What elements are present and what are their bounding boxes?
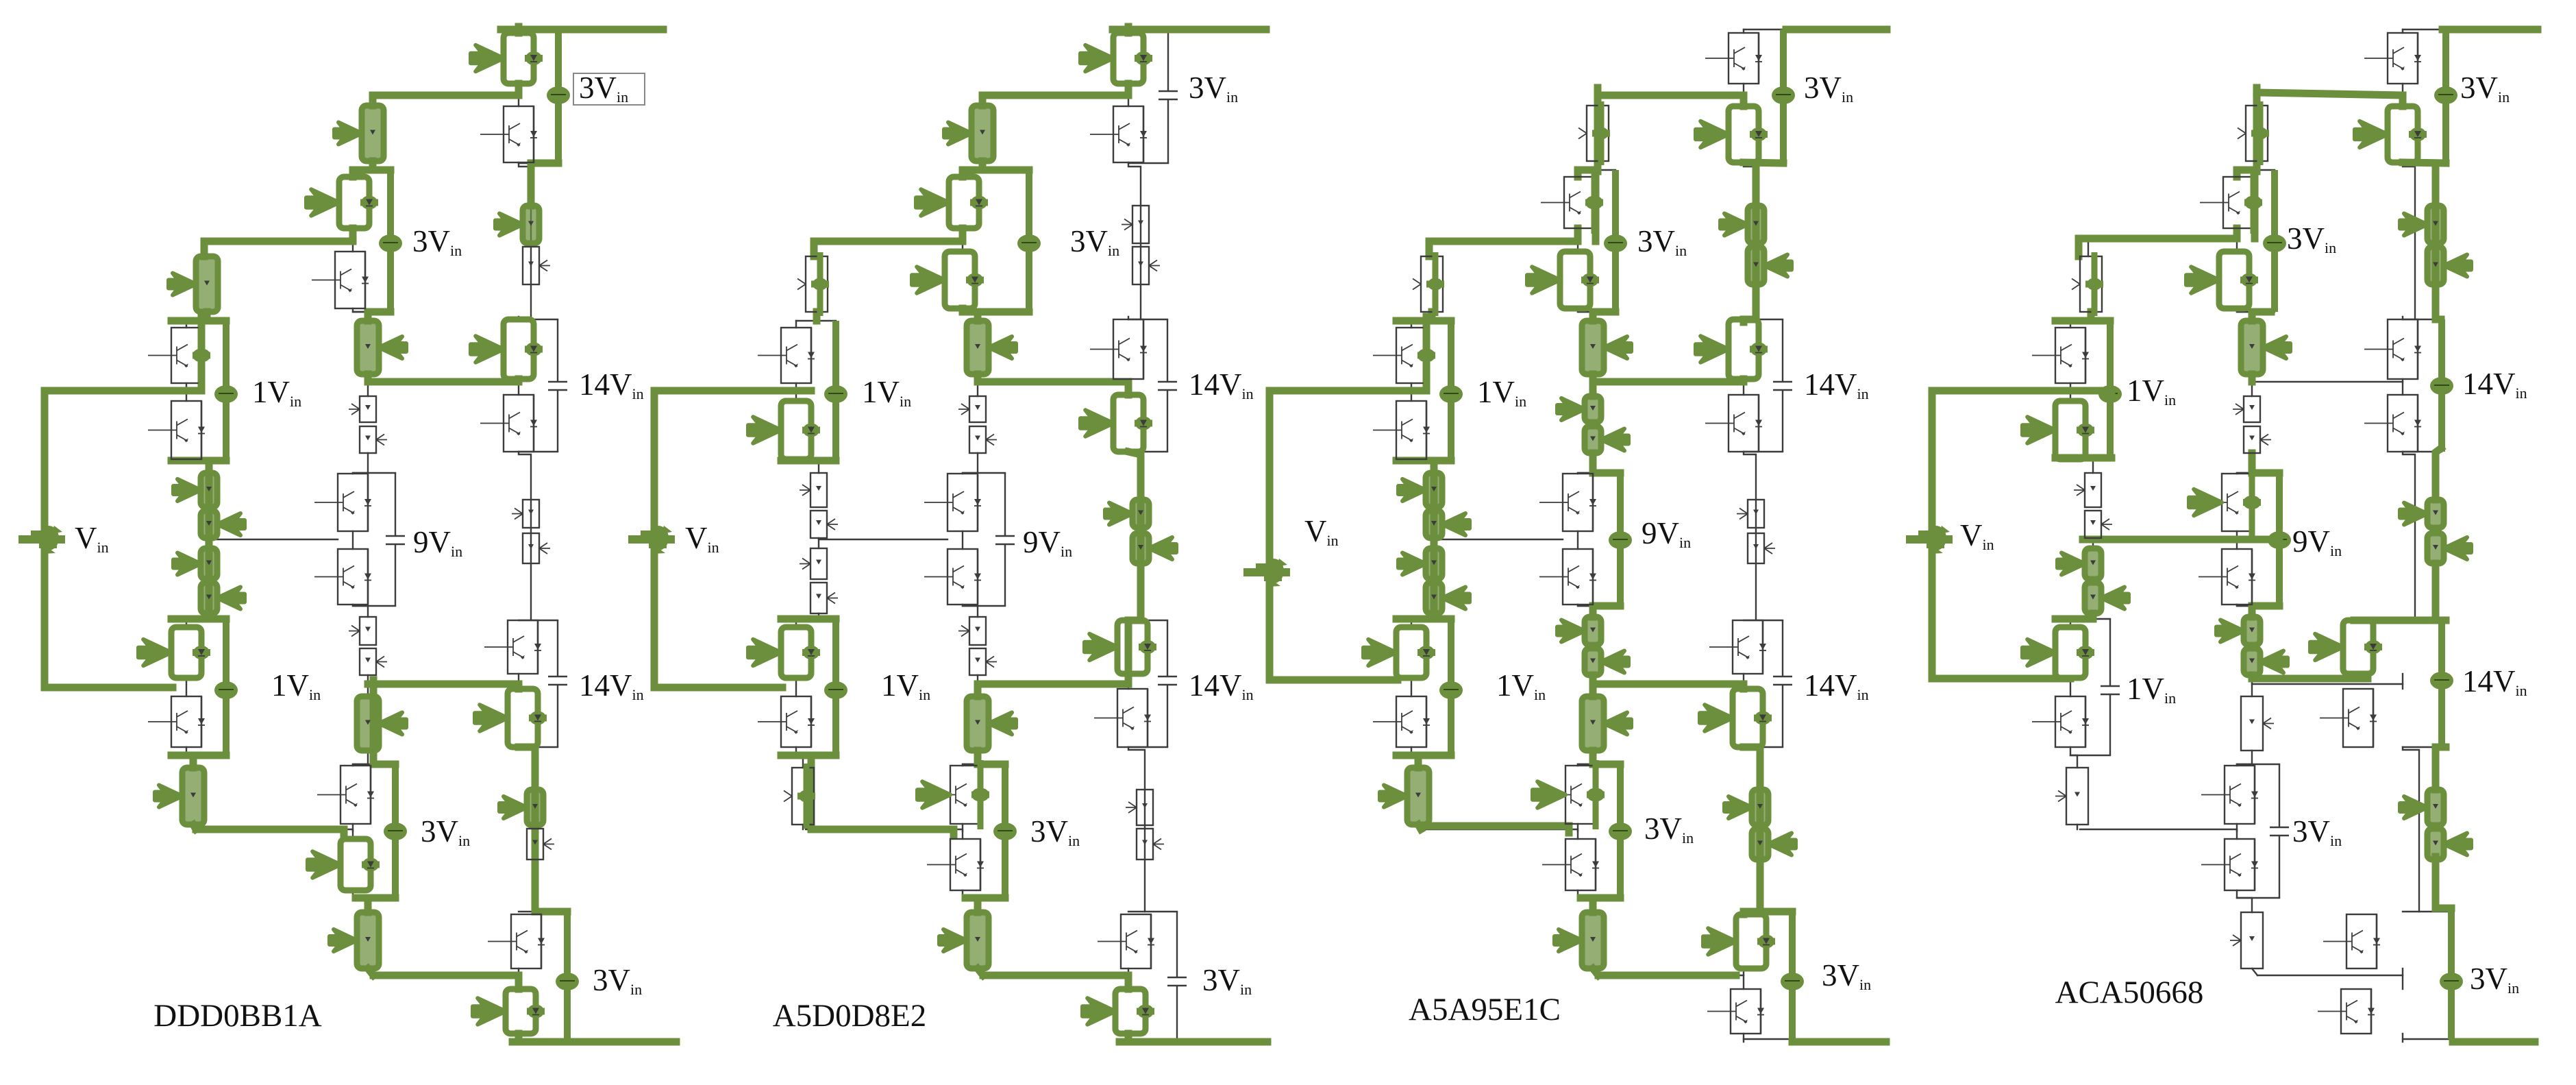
wire green A5A95E1C seg46 — [1418, 825, 1421, 829]
wire black DDD0BB1A sk16 — [519, 911, 567, 912]
wire black A5A95E1C sk40 — [1431, 312, 1433, 321]
switch RC31 A5A95E1C — [1724, 790, 1768, 825]
wire green A5D0D8E2 seg15 — [978, 378, 1128, 386]
wire green DDD0BB1A seg11 — [171, 317, 226, 325]
wire green ACA50668 seg30 — [1932, 387, 2111, 395]
transistor M1b DDD0BB1A — [312, 252, 369, 308]
transistor M3b A5A95E1C — [1542, 839, 1599, 890]
switch LJK1 A5D0D8E2 — [800, 548, 827, 579]
wire black DDD0BB1A sk41 — [186, 321, 187, 328]
wire black DDD0BB1A sk44 — [208, 538, 210, 548]
wire black ACA50668 sk44 — [2092, 538, 2094, 548]
wire green A5D0D8E2 seg29 — [781, 457, 836, 465]
wire black A5A95E1C sk21 — [1577, 228, 1578, 252]
wire black A5D0D8E2 sk58 — [806, 829, 963, 831]
transistor 9Vb A5A95E1C — [1539, 549, 1596, 605]
wire green A5A95E1C seg7 — [1593, 378, 1744, 386]
wire green A5D0D8E2 seg28 — [654, 387, 785, 395]
wire green A5A95E1C seg34 — [1421, 826, 1569, 833]
transistor M1b A5D0D8E2 — [912, 252, 984, 308]
transistor R1b A5A95E1C — [1696, 106, 1768, 162]
wire black ACA50668 sk54 — [2088, 239, 2237, 241]
wire black ACA50668 sk10 — [2403, 29, 2442, 30]
wire black ACA50668 sk49 — [2070, 320, 2110, 321]
wire black A5D0D8E2 sk6 — [1128, 379, 1129, 395]
wire black A5D0D8E2 sk49 — [796, 320, 836, 321]
wire black ACA50668 sk46 — [2070, 678, 2071, 696]
switch RC21 A5D0D8E2 — [1105, 500, 1149, 528]
switch LHI1 A5A95E1C — [1398, 473, 1442, 507]
wire black ACA50668 sk1 — [2403, 452, 2415, 619]
wire black A5A95E1C sk16 — [1744, 911, 1792, 912]
wire black A5A95E1C sk43 — [1411, 459, 1434, 473]
wire green DDD0BB1A seg32 — [370, 680, 377, 764]
wire green DDD0BB1A seg24 — [368, 378, 519, 386]
switch MG1 A5D0D8E2 — [939, 912, 989, 968]
wire green A5A95E1C seg35 — [1581, 894, 1620, 902]
transistor Lut A5D0D8E2 — [758, 328, 815, 383]
wire green ACA50668 seg14 — [2233, 170, 2241, 177]
capacitor cap9V DDD0BB1A — [386, 473, 405, 606]
switch MBC2 DDD0BB1A — [360, 426, 387, 453]
wire black A5A95E1C sk36 — [1578, 605, 1620, 607]
switch RC32 ACA50668 — [2427, 829, 2471, 860]
wire black DDD0BB1A sk50 — [186, 460, 226, 461]
switch RC22 A5A95E1C — [1748, 533, 1775, 563]
wire black DDD0BB1A sk20 — [352, 170, 354, 177]
wire black DDD0BB1A sk13 — [519, 451, 558, 452]
switch MDE2 A5D0D8E2 — [969, 648, 997, 675]
transistor 9Vt A5D0D8E2 — [924, 474, 981, 531]
wire green DDD0BB1A seg5 — [353, 167, 391, 174]
wire black DDD0BB1A sk36 — [353, 605, 395, 607]
switch RC32 DDD0BB1A — [527, 829, 554, 860]
wire black A5D0D8E2 sk27 — [963, 605, 978, 617]
wire green DDD0BB1A seg8 — [204, 238, 353, 245]
wire green A5A95E1C seg20 — [1574, 228, 1582, 241]
wire black A5D0D8E2 sk5 — [1128, 317, 1129, 319]
label LLl ACA50668 — [2127, 672, 2176, 707]
wire black ACA50668 sk16 — [2403, 911, 2451, 912]
wire black A5D0D8E2 sk48 — [802, 825, 804, 829]
wire black A5A95E1C sk11 — [1744, 162, 1783, 164]
transistor R4b A5A95E1C — [1707, 989, 1764, 1034]
switch LJK2 ACA50668 — [2085, 583, 2129, 613]
switch RC21 A5A95E1C — [1737, 500, 1764, 528]
label LR4 A5D0D8E2 — [1202, 963, 1252, 998]
wire green A5D0D8E2 seg27 — [781, 752, 836, 759]
wire black ACA50668 sk9 — [2402, 1034, 2403, 1042]
transistor M3b ACA50668 — [2201, 839, 2258, 890]
wire black A5D0D8E2 sk18 — [982, 95, 983, 106]
capacitor capR1 DDD0BB1A — [547, 29, 570, 163]
wire black A5A95E1C sk2 — [1744, 747, 1760, 912]
wire black A5D0D8E2 sk26 — [962, 531, 963, 549]
wire black A5A95E1C sk26 — [1577, 531, 1578, 549]
switch LL1 DDD0BB1A — [155, 768, 204, 825]
wire black DDD0BB1A sk45 — [186, 613, 209, 627]
wire green A5A95E1C seg25 — [1589, 374, 1597, 396]
transistor R3t ACA50668 — [2310, 620, 2382, 674]
switch LC01 A5A95E1C — [1413, 252, 1444, 316]
wire green A5A95E1C seg13 — [1740, 912, 1748, 914]
transistor Lut ACA50668 — [2032, 328, 2089, 383]
wire black A5A95E1C sk17 — [1744, 1038, 1792, 1040]
capacitor capM1 DDD0BB1A — [379, 170, 402, 312]
wire green A5A95E1C seg16 — [1578, 167, 1598, 174]
wire green A5A95E1C seg10 — [1744, 747, 1760, 912]
wire green A5D0D8E2 seg6 — [959, 170, 967, 177]
wire black DDD0BB1A sk30 — [352, 824, 354, 839]
wire green A5A95E1C seg18 — [1592, 170, 1600, 241]
transistor Llb A5D0D8E2 — [758, 696, 815, 747]
wire green ACA50668 seg17 — [2233, 228, 2241, 239]
wire black ACA50668 sk50 — [2070, 460, 2110, 461]
wire green DDD0BB1A seg13 — [45, 387, 201, 395]
wire green A5A95E1C seg29 — [1593, 602, 1620, 610]
wire green A5D0D8E2 seg4 — [963, 161, 982, 170]
wire black ACA50668 sk3 — [2402, 29, 2403, 33]
wire green A5A95E1C seg27 — [1593, 470, 1620, 477]
wire top bus A5D0D8E2 — [1113, 26, 1266, 34]
wire black DDD0BB1A sk47 — [186, 747, 193, 768]
transistor R2b A5D0D8E2 — [1080, 395, 1152, 452]
wire black DDD0BB1A sk1 — [519, 452, 531, 619]
transistor M3t DDD0BB1A — [317, 766, 374, 824]
wire green ACA50668 seg6 — [2432, 563, 2440, 620]
transistor R3b A5D0D8E2 — [1094, 689, 1151, 747]
capacitor capLl ACA50668 — [2101, 619, 2120, 755]
wire black DDD0BB1A sk35 — [353, 472, 395, 474]
wire green A5D0D8E2 seg0 — [1125, 27, 1132, 33]
label L9V A5D0D8E2 — [1023, 525, 1072, 560]
wire green A5D0D8E2 seg10 — [813, 312, 821, 321]
wire green A5A95E1C seg24 — [1589, 312, 1597, 321]
label LM3 A5D0D8E2 — [1030, 814, 1080, 849]
wire green A5D0D8E2 seg25 — [811, 829, 954, 835]
wire black A5A95E1C sk0 — [1744, 162, 1756, 319]
wire black A5D0D8E2 sk8 — [1128, 968, 1129, 989]
wire green DDD0BB1A seg3 — [369, 95, 377, 106]
wire green A5D0D8E2 seg33 — [978, 968, 983, 975]
label L14b A5D0D8E2 — [1189, 668, 1254, 703]
switch RC21 ACA50668 — [2400, 500, 2444, 528]
wire black A5A95E1C sk14 — [1744, 620, 1783, 621]
wire black A5D0D8E2 sk51 — [796, 618, 836, 620]
switch MDE2 ACA50668 — [2244, 648, 2288, 675]
transistor R4b ACA50668 — [2318, 989, 2375, 1034]
switch RC11 ACA50668 — [2400, 206, 2444, 243]
wire green DDD0BB1A seg16 — [171, 615, 226, 623]
wire green DDD0BB1A seg19 — [193, 825, 196, 829]
transistor R1b DDD0BB1A — [480, 106, 537, 162]
wire black A5D0D8E2 sk35 — [963, 472, 1005, 474]
wire green A5A95E1C seg42 — [1431, 461, 1438, 619]
transistor R2b ACA50668 — [2364, 395, 2421, 452]
switch LJK1 A5A95E1C — [1398, 548, 1442, 579]
wire green DDD0BB1A seg12 — [198, 317, 206, 391]
wire green DDD0BB1A seg35 — [364, 898, 372, 912]
wire green A5A95E1C seg1 — [1598, 92, 1744, 99]
wire bottom bus ACA50668 — [2453, 1038, 2535, 1046]
switch MA1 DDD0BB1A — [357, 321, 406, 374]
wire black A5A95E1C sk51 — [1411, 618, 1451, 620]
wire black ACA50668 sk0 — [2403, 162, 2415, 319]
wire black DDD0BB1A sk43 — [186, 459, 209, 473]
capacitor capLl A5D0D8E2 — [824, 619, 847, 755]
wire black A5D0D8E2 sk55 — [978, 381, 1128, 382]
switch MBC1 A5D0D8E2 — [958, 396, 986, 422]
transistor Lut A5A95E1C — [1373, 322, 1435, 389]
label LLl A5A95E1C — [1496, 668, 1546, 703]
switch RC22 DDD0BB1A — [523, 533, 550, 563]
wire black ACA50668 sk29 — [2237, 751, 2252, 766]
wire green ACA50668 seg16 — [2079, 235, 2237, 243]
label LM3 A5A95E1C — [1644, 812, 1694, 846]
wire green ACA50668 seg31 — [2055, 454, 2111, 462]
transistor Llt DDD0BB1A — [138, 627, 210, 678]
wire green ACA50668 seg8 — [2252, 675, 2368, 683]
wire black ACA50668 sk35 — [2237, 472, 2279, 474]
transistor R3b DDD0BB1A — [475, 689, 547, 747]
wire black A5A95E1C sk34 — [1578, 311, 1615, 313]
wire green ACA50668 seg25 — [2252, 602, 2279, 610]
transistor R2b DDD0BB1A — [480, 395, 537, 452]
wire black DDD0BB1A sk27 — [353, 605, 368, 617]
label LR1 A5A95E1C — [1804, 71, 1853, 106]
wire green A5D0D8E2 seg32 — [965, 894, 1005, 902]
wire green DDD0BB1A seg39 — [515, 1034, 523, 1042]
wire black A5D0D8E2 sk42 — [795, 383, 797, 401]
wire black A5A95E1C sk24 — [1592, 382, 1594, 396]
wire black A5A95E1C sk9 — [1743, 1034, 1744, 1042]
source Vin A5D0D8E2 — [651, 391, 658, 687]
wire black DDD0BB1A sk22 — [353, 308, 368, 321]
wire green A5A95E1C seg37 — [1593, 968, 1598, 975]
wire black DDD0BB1A sk3 — [518, 29, 519, 33]
wire green ACA50668 seg9 — [2436, 747, 2446, 790]
wire black ACA50668 sk28 — [2251, 675, 2253, 696]
wire green ACA50668 seg5 — [2436, 448, 2441, 500]
capacitor capM3 ACA50668 — [2270, 764, 2289, 898]
wire green A5D0D8E2 seg12 — [963, 308, 1029, 316]
switch RC32 A5D0D8E2 — [1137, 829, 1164, 860]
wire green DDD0BB1A seg15 — [206, 461, 213, 619]
wire black A5D0D8E2 sk9 — [1128, 1034, 1129, 1042]
wire black DDD0BB1A sk6 — [518, 379, 519, 395]
wire black A5A95E1C sk45 — [1411, 613, 1434, 627]
wire black A5D0D8E2 sk2 — [1128, 747, 1145, 912]
wire green A5D0D8E2 seg17 — [1128, 452, 1141, 620]
wire black A5A95E1C sk8 — [1743, 968, 1744, 989]
wire black DDD0BB1A sk11 — [519, 162, 558, 164]
label L14b ACA50668 — [2462, 664, 2527, 699]
wire black DDD0BB1A sk48 — [193, 825, 194, 829]
label LLl DDD0BB1A — [271, 668, 321, 703]
wire black ACA50668 sk8 — [2402, 968, 2403, 989]
transistor R2t DDD0BB1A — [471, 319, 543, 379]
wire black A5D0D8E2 sk21 — [962, 228, 963, 252]
wire black ACA50668 sk31 — [2237, 890, 2252, 912]
wire green ACA50668 seg2 — [2403, 162, 2446, 163]
wire black A5D0D8E2 sk36 — [963, 605, 1005, 607]
wire black A5D0D8E2 sk11 — [1128, 162, 1168, 164]
label L14a DDD0BB1A — [579, 367, 644, 402]
switch MC01 A5D0D8E2 — [944, 106, 993, 161]
wire green A5A95E1C seg30 — [1589, 675, 1597, 696]
source Vin DDD0BB1A — [41, 391, 49, 687]
wire green A5A95E1C seg5 — [1740, 319, 1748, 322]
wire black ACA50668 sk25 — [2237, 453, 2252, 474]
wire black A5A95E1C sk3 — [1743, 29, 1744, 33]
wire green ACA50668 seg11 — [2436, 905, 2451, 912]
wire black ACA50668 sk45 — [2070, 613, 2093, 627]
wire green A5D0D8E2 seg8 — [814, 238, 963, 245]
wire black DDD0BB1A sk34 — [353, 311, 391, 313]
wire green ACA50668 seg20 — [2252, 308, 2271, 316]
wire black A5D0D8E2 sk47 — [796, 747, 803, 768]
switch MBC1 ACA50668 — [2233, 396, 2260, 422]
wire green A5D0D8E2 seg5 — [963, 167, 1029, 174]
wire black DDD0BB1A sk56 — [209, 539, 338, 540]
wire black ACA50668 sk5 — [2402, 317, 2403, 319]
wire black A5A95E1C sk49 — [1411, 320, 1451, 321]
capacitor capR3 ACA50668 — [2430, 620, 2453, 747]
label Vin DDD0BB1A — [75, 521, 109, 556]
transistor R4b DDD0BB1A — [473, 989, 545, 1034]
switch MC01 A5A95E1C — [1578, 101, 1610, 165]
wire black A5D0D8E2 sk24 — [977, 382, 978, 396]
wire black DDD0BB1A sk46 — [186, 678, 187, 696]
wire black A5A95E1C sk30 — [1577, 824, 1578, 839]
switch LC01 ACA50668 — [2072, 252, 2103, 316]
wire green DDD0BB1A seg37 — [373, 972, 511, 979]
wire black A5D0D8E2 sk54 — [814, 239, 963, 241]
wire green DDD0BB1A seg10 — [203, 312, 211, 321]
wire black A5D0D8E2 sk32 — [978, 968, 983, 975]
wire green ACA50668 seg24 — [2249, 606, 2256, 617]
wire black ACA50668 sk30 — [2236, 824, 2238, 839]
wire black ACA50668 sk55 — [2252, 381, 2403, 382]
wire black DDD0BB1A sk31 — [353, 890, 368, 912]
transistor 9Vt ACA50668 — [2189, 468, 2261, 537]
transistor R4t ACA50668 — [2323, 914, 2380, 968]
capacitor capM3 DDD0BB1A — [384, 764, 407, 898]
switch LHI2 A5A95E1C — [1426, 511, 1470, 538]
wire black ACA50668 sk24 — [2251, 382, 2253, 396]
wire green A5A95E1C seg4 — [1744, 316, 1756, 324]
switch MG1 A5A95E1C — [1555, 912, 1604, 968]
capacitor capR3 A5D0D8E2 — [1158, 620, 1177, 747]
switch RC12 ACA50668 — [2427, 247, 2471, 284]
wire green A5A95E1C seg19 — [1429, 238, 1578, 245]
wire black ACA50668 sk4 — [2402, 84, 2403, 106]
capacitor capR4 ACA50668 — [2440, 912, 2463, 1039]
transistor Llt A5A95E1C — [1363, 627, 1435, 678]
wire black A5A95E1C sk37 — [1578, 764, 1620, 765]
wire black DDD0BB1A sk7 — [518, 674, 519, 689]
transistor 9Vb ACA50668 — [2199, 549, 2255, 605]
wire black DDD0BB1A sk29 — [353, 751, 368, 766]
switch MC01 ACA50668 — [2238, 101, 2269, 165]
label L9V DDD0BB1A — [413, 525, 462, 560]
wire black ACA50668 sk53 — [2257, 95, 2403, 96]
capacitor capR1 ACA50668 — [2434, 29, 2457, 163]
wire black A5D0D8E2 sk10 — [1128, 29, 1168, 30]
transistor R1t A5A95E1C — [1705, 33, 1762, 84]
wire green A5D0D8E2 seg21 — [1125, 674, 1132, 684]
wire black DDD0BB1A sk53 — [373, 95, 519, 96]
switch MA1 A5A95E1C — [1582, 321, 1631, 374]
wire green A5D0D8E2 seg30 — [781, 615, 836, 623]
label LR1 ACA50668 — [2460, 71, 2510, 106]
wire black A5A95E1C sk7 — [1743, 674, 1744, 689]
wire green A5D0D8E2 seg13 — [974, 312, 982, 321]
wire black A5D0D8E2 sk50 — [796, 460, 836, 461]
switch MF1 ACA50668 — [2241, 696, 2274, 751]
transistor 9Vt DDD0BB1A — [314, 474, 371, 531]
capacitor cap9V ACA50668 — [2268, 473, 2291, 606]
wire black DDD0BB1A sk19 — [353, 161, 373, 170]
wire green A5A95E1C seg28 — [1589, 606, 1597, 617]
wire black A5D0D8E2 sk37 — [963, 764, 1005, 765]
transistor M1t DDD0BB1A — [306, 177, 378, 228]
wire black ACA50668 sk41 — [2070, 321, 2071, 328]
wire black DDD0BB1A sk18 — [372, 95, 373, 106]
wire black A5A95E1C sk41 — [1411, 321, 1412, 328]
wire green A5A95E1C seg31 — [1589, 681, 1597, 688]
capacitor capR3 A5A95E1C — [1773, 620, 1792, 747]
wire green ACA50668 seg33 — [2055, 615, 2093, 623]
transistor R3t DDD0BB1A — [484, 620, 541, 674]
wire black ACA50668 sk59 — [2257, 975, 2403, 976]
capacitor capR2 A5D0D8E2 — [1158, 319, 1177, 452]
switch MC01 DDD0BB1A — [334, 106, 384, 161]
wire green ACA50668 seg26 — [2249, 675, 2256, 679]
svg-text:ACA50668: ACA50668 — [2055, 975, 2204, 1010]
switch MBC1 A5A95E1C — [1557, 396, 1601, 422]
wire black ACA50668 sk21 — [2236, 228, 2238, 252]
wire black A5D0D8E2 sk30 — [962, 824, 963, 839]
wire green ACA50668 seg22 — [2249, 374, 2256, 382]
capacitor capR1 A5D0D8E2 — [1159, 29, 1178, 163]
wire black A5D0D8E2 sk31 — [963, 890, 978, 912]
switch RC22 ACA50668 — [2427, 533, 2471, 563]
wire green ACA50668 seg27 — [2252, 470, 2279, 477]
wire black ACA50668 sk27 — [2237, 605, 2252, 617]
wire black ACA50668 sk23 — [2251, 374, 2253, 382]
transistor R3t A5A95E1C — [1709, 620, 1766, 674]
label LM1 ACA50668 — [2287, 221, 2336, 256]
wire black A5D0D8E2 sk17 — [1128, 1038, 1177, 1040]
wire black ACA50668 sk51 — [2070, 618, 2110, 620]
wire green A5A95E1C seg38 — [1396, 317, 1451, 325]
transistor Llt A5D0D8E2 — [748, 627, 820, 678]
label LLu A5D0D8E2 — [862, 375, 911, 410]
wire green A5A95E1C seg39 — [1423, 317, 1431, 391]
wire green A5A95E1C seg12 — [1744, 908, 1760, 916]
wire green A5A95E1C seg2 — [1744, 162, 1783, 163]
switch MF1 A5A95E1C — [1582, 696, 1631, 751]
transistor Llb ACA50668 — [2032, 696, 2089, 747]
wire black A5D0D8E2 sk7 — [1128, 674, 1129, 689]
wire black A5A95E1C sk23 — [1592, 374, 1594, 382]
wire black A5A95E1C sk35 — [1578, 472, 1620, 474]
wire green DDD0BB1A seg20 — [196, 829, 344, 835]
wire green A5D0D8E2 seg2 — [982, 92, 1128, 99]
switch MA1 ACA50668 — [2241, 321, 2290, 374]
transistor R2t A5D0D8E2 — [1090, 319, 1147, 379]
